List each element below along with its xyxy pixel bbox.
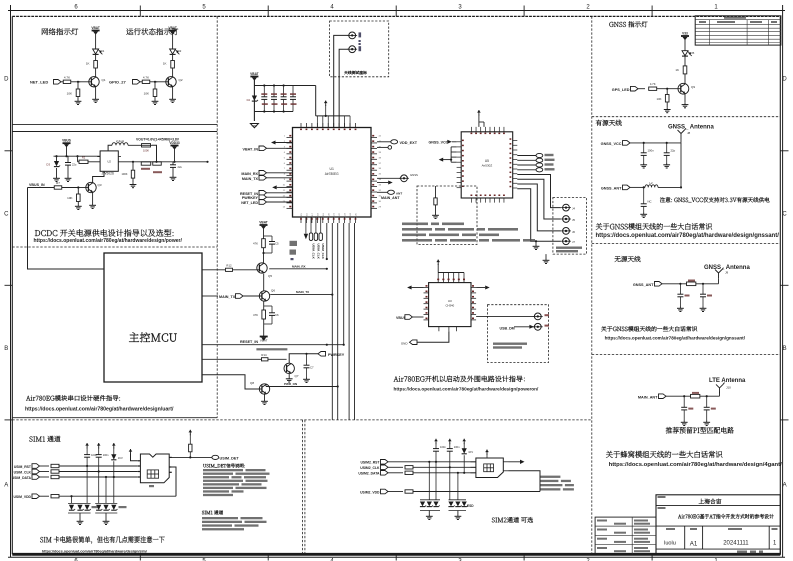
svg-text:RESET_IN: RESET_IN bbox=[240, 192, 258, 196]
svg-text:10K: 10K bbox=[144, 92, 149, 96]
port arrow (module right) bbox=[377, 181, 393, 185]
module U1 Air780EG bbox=[293, 128, 372, 218]
svg-text:Q5: Q5 bbox=[268, 274, 272, 278]
label antenna test seat bbox=[344, 71, 367, 75]
svg-text:VBAT: VBAT bbox=[259, 220, 267, 224]
capacitor C20 bbox=[681, 396, 693, 420]
series resistor R24 bbox=[40, 464, 138, 467]
svg-text:2: 2 bbox=[586, 5, 590, 11]
wire R11 to collector bbox=[262, 248, 264, 263]
svg-text:MAIN_RX: MAIN_RX bbox=[292, 264, 306, 268]
svg-text:NET_LED: NET_LED bbox=[241, 201, 258, 205]
capacitor C18 bbox=[677, 284, 689, 307]
note GNSS_VCC 3.3V only bbox=[660, 197, 769, 202]
wire bundle 5 bbox=[348, 223, 350, 420]
svg-text:Air530Z: Air530Z bbox=[482, 164, 493, 168]
SIM2 card connector J12 bbox=[471, 458, 509, 478]
svg-text:8: 8 bbox=[284, 174, 286, 176]
svg-text:B: B bbox=[4, 346, 8, 352]
svg-text:LTE Antenna: LTE Antenna bbox=[709, 378, 746, 384]
svg-text:J9: J9 bbox=[725, 271, 729, 275]
GNSS chip U5 bbox=[457, 127, 518, 203]
wire Q6 output net bbox=[270, 290, 333, 296]
series resistor R7 bbox=[28, 181, 89, 189]
svg-text:NET_LED: NET_LED bbox=[30, 80, 48, 85]
input port reset bbox=[240, 191, 293, 196]
wire USIM_DET out bbox=[169, 456, 212, 458]
svg-text:17: 17 bbox=[312, 213, 314, 216]
power flag VDD (GNSS LED) bbox=[681, 31, 689, 50]
power flag VBAT (LED driver) bbox=[91, 26, 99, 49]
transistor Q3 enable bbox=[86, 182, 102, 192]
RF pad GNSS antenna bbox=[377, 173, 418, 182]
wire U5 to RF pad 2 bbox=[517, 179, 561, 219]
svg-text:MAIN_TX: MAIN_TX bbox=[242, 177, 259, 181]
capacitor C5 bbox=[264, 236, 280, 253]
svg-text:USIM_CLK: USIM_CLK bbox=[14, 470, 32, 474]
svg-text:USIM_DET: USIM_DET bbox=[220, 457, 240, 461]
wire RESET net bbox=[202, 340, 344, 350]
power arrow (module top) bbox=[324, 101, 328, 118]
node RESET wire end bbox=[343, 344, 345, 346]
wire MCU to UART row 2 bbox=[202, 295, 218, 297]
TVS diode D13 (SIM2 left) bbox=[433, 502, 439, 507]
input port USIM_VDD bbox=[13, 494, 39, 499]
TVS diode D9 (SIM1 group B) bbox=[96, 505, 102, 510]
url uart design bbox=[25, 406, 174, 412]
wire MCU to Q8 base bbox=[202, 375, 262, 389]
input port USIM_CLK bbox=[14, 469, 40, 474]
svg-text:MAIN_ANT: MAIN_ANT bbox=[381, 196, 400, 200]
ground arrow (module bottom pin 1) bbox=[304, 217, 308, 239]
svg-text:GNSS: GNSS bbox=[410, 173, 418, 177]
svg-text:14: 14 bbox=[283, 206, 286, 208]
svg-text:J7: J7 bbox=[572, 240, 575, 244]
svg-text:U1: U1 bbox=[330, 167, 334, 171]
input port GNSS_ANT passive bbox=[633, 282, 662, 287]
antenna symbol (passive) bbox=[715, 268, 729, 279]
svg-text:38: 38 bbox=[379, 157, 382, 159]
wire decoupling bus top bbox=[254, 84, 315, 86]
svg-text:MAIN_ANT: MAIN_ANT bbox=[638, 395, 658, 399]
port arrow (U3 right) bbox=[476, 286, 490, 290]
net label USB_DM bbox=[500, 325, 534, 331]
input port VBUS U3 bbox=[396, 315, 424, 320]
pull-down resistor 10K bbox=[144, 82, 157, 97]
note USIM_DET explanation body bbox=[203, 469, 270, 496]
svg-text:U3: U3 bbox=[448, 299, 452, 303]
wire GNSS chip bus bbox=[451, 147, 457, 162]
LED D1 bbox=[93, 49, 105, 54]
svg-text:35: 35 bbox=[379, 174, 382, 176]
input port USIM2_RST bbox=[360, 460, 388, 465]
pull-up resistor R28 (USIM_DET) bbox=[189, 430, 193, 458]
svg-text:A: A bbox=[4, 482, 8, 488]
svg-text:VBAT: VBAT bbox=[91, 26, 99, 30]
ground (decoupling bank) bbox=[250, 124, 258, 128]
wire LED to resistor bbox=[172, 55, 174, 61]
svg-text:1K: 1K bbox=[163, 62, 167, 66]
ground (backup) bbox=[432, 205, 439, 219]
resistor R13 bbox=[253, 301, 265, 319]
wire VBAT bus to pin bus bbox=[315, 86, 317, 116]
output port U5 right 2 bbox=[517, 158, 554, 162]
svg-text:R7: R7 bbox=[56, 181, 60, 185]
svg-text:4.7K: 4.7K bbox=[64, 76, 70, 80]
series resistor R2 (EN pin) bbox=[78, 156, 101, 164]
wire collector to EN pin bbox=[93, 171, 104, 182]
svg-text:GNSS_ANT: GNSS_ANT bbox=[633, 283, 654, 287]
dashed box GNSS backup supply bbox=[417, 186, 477, 245]
series resistor 4.7K bbox=[61, 76, 80, 84]
input port LTE_ANT bbox=[638, 394, 666, 399]
SIM1 card connector J11 bbox=[138, 454, 172, 487]
wire to matching (passive) bbox=[662, 283, 687, 285]
wire resistor to collector bbox=[172, 68, 174, 77]
node base junction GNSS bbox=[666, 88, 668, 90]
svg-text:https://docs.openluat.com/air7: https://docs.openluat.com/air780eg/at/ha… bbox=[42, 549, 147, 553]
pull-down resistor 10K bbox=[67, 82, 80, 97]
module bottom pins bbox=[300, 213, 357, 223]
svg-text:Air780EG: Air780EG bbox=[325, 172, 339, 176]
power flag VBUS input bbox=[62, 139, 71, 157]
main MCU block U4 bbox=[104, 253, 202, 382]
wire SIM2 row1 bbox=[388, 461, 476, 463]
output port U5 right 4 bbox=[517, 168, 554, 172]
svg-text:100n: 100n bbox=[454, 445, 460, 449]
svg-text:MAIN_TX: MAIN_TX bbox=[219, 295, 236, 299]
capacitor C26 (SIM2) bbox=[447, 445, 460, 467]
ground (R4) bbox=[130, 178, 137, 188]
svg-text:C7: C7 bbox=[310, 366, 314, 370]
wire U3 to USB pad DP bbox=[476, 315, 534, 317]
dcdc converter U2 JW5026 bbox=[97, 151, 121, 176]
svg-text:USIM2_CLK: USIM2_CLK bbox=[360, 466, 380, 470]
wire R20 to Q9 bbox=[684, 74, 686, 84]
svg-text:100n: 100n bbox=[440, 445, 446, 449]
capacitor C8 (module decoupling) bbox=[261, 86, 268, 112]
resistor R4 100K bbox=[121, 162, 134, 178]
capacitor C11 (module decoupling) bbox=[290, 86, 297, 112]
svg-text:23: 23 bbox=[345, 213, 347, 216]
module left pins bbox=[283, 135, 293, 208]
svg-text:9: 9 bbox=[284, 179, 286, 181]
label TVS (SIM2) bbox=[467, 504, 474, 508]
svg-text:J5: J5 bbox=[572, 218, 575, 222]
port arrow (module left 1) bbox=[271, 141, 293, 145]
ground (C21) bbox=[703, 421, 710, 426]
svg-text:USIM2_RST: USIM2_RST bbox=[360, 461, 380, 465]
svg-text:https://docs.openluat.com/air7: https://docs.openluat.com/air780eg/at/ha… bbox=[605, 335, 746, 340]
approval table bbox=[595, 517, 656, 554]
svg-text:47K: 47K bbox=[253, 313, 258, 317]
svg-text:37: 37 bbox=[379, 163, 382, 165]
svg-text:V33: V33 bbox=[682, 31, 688, 35]
TVS diode D7 (SIM1 group A) bbox=[77, 505, 83, 510]
svg-text:47K: 47K bbox=[253, 242, 258, 246]
ground (pull-down) bbox=[75, 97, 82, 105]
transistor Q7 bbox=[284, 363, 299, 378]
title block frame bbox=[656, 495, 780, 555]
design title text bbox=[658, 507, 774, 519]
series resistor 4.7K bbox=[140, 76, 157, 84]
svg-text:10: 10 bbox=[283, 185, 286, 187]
input port powerkey bbox=[242, 195, 293, 200]
wire SIM1 VDD loop bbox=[172, 467, 176, 496]
revision table bbox=[695, 16, 781, 45]
capacitor C6 bbox=[264, 306, 279, 324]
title GNSS indicator bbox=[609, 21, 647, 27]
TVS array bus (SIM2) bbox=[420, 500, 466, 511]
output port U5 right 1 bbox=[517, 153, 553, 157]
svg-text:C: C bbox=[4, 211, 9, 217]
input port GPIO_27 bbox=[109, 80, 140, 85]
wire bundle 3 bbox=[337, 223, 339, 420]
svg-text:6: 6 bbox=[74, 5, 78, 11]
title DCDC design guide bbox=[35, 229, 174, 236]
input port VBAT main bbox=[242, 146, 292, 151]
port U3 bottom bbox=[401, 331, 449, 345]
capacitor C25 (SIM2) bbox=[433, 445, 446, 462]
svg-text:Q3: Q3 bbox=[98, 183, 102, 187]
svg-text:2.2uH: 2.2uH bbox=[116, 139, 124, 143]
svg-text:100K: 100K bbox=[143, 149, 149, 153]
wire LED to resistor bbox=[95, 55, 97, 61]
wire U5 to RF pad 3 bbox=[517, 184, 561, 231]
wire Q8 emitter to ground bbox=[261, 394, 268, 404]
svg-text:USIM2_DATA: USIM2_DATA bbox=[358, 472, 380, 476]
port arrow (GNSS chip bus) bbox=[439, 158, 453, 162]
ground (RF pad 4 branch) bbox=[533, 240, 540, 249]
ground (R22) bbox=[664, 102, 671, 113]
svg-text:D: D bbox=[4, 77, 9, 83]
test point TP1 bbox=[377, 146, 392, 150]
port arrow (U3 left) bbox=[407, 286, 423, 290]
ground (SIM2 TVS right) bbox=[455, 511, 462, 520]
label SIM2 channel optional bbox=[492, 517, 533, 523]
formula note VOUT bbox=[136, 137, 180, 141]
power arrow (GNSS chip) bbox=[477, 110, 484, 127]
svg-text:R12: R12 bbox=[226, 263, 232, 267]
node junction (SIM1 col 0) bbox=[86, 465, 88, 467]
svg-text:29: 29 bbox=[379, 206, 382, 208]
TVS array bus (SIM1 group A) bbox=[68, 503, 91, 513]
pull-down resistor R8 bbox=[67, 188, 80, 202]
svg-text:A1: A1 bbox=[690, 541, 698, 548]
RF connector J5 bbox=[561, 216, 575, 223]
series resistor R31 bbox=[388, 471, 476, 474]
wire U3 top bus bbox=[438, 272, 464, 274]
ground (C16) bbox=[663, 163, 670, 168]
RF test connector J2 bbox=[347, 32, 361, 42]
wire bundle 4 bbox=[343, 223, 345, 345]
svg-text:34: 34 bbox=[379, 179, 382, 181]
wire Q9 emitter ground bbox=[682, 94, 689, 108]
svg-text:GNSS_ Antenna: GNSS_ Antenna bbox=[668, 124, 714, 130]
title poweron design guide bbox=[394, 376, 525, 383]
svg-text:D4: D4 bbox=[247, 98, 251, 102]
RF connector J7 bbox=[561, 238, 575, 245]
svg-text:GND: GND bbox=[401, 342, 409, 346]
wire emitter to ground bbox=[172, 87, 174, 98]
svg-text:100n: 100n bbox=[103, 453, 109, 457]
svg-text:U2: U2 bbox=[107, 160, 111, 164]
wire output bus bbox=[118, 161, 208, 163]
svg-text:D5: D5 bbox=[691, 51, 695, 55]
svg-text:1: 1 bbox=[773, 541, 777, 547]
output port USIM_DET bbox=[212, 455, 239, 460]
svg-text:R2: R2 bbox=[82, 156, 86, 160]
wire SIM1 verticals to TVS bbox=[70, 466, 113, 503]
wire SIM2 verticals to TVS bbox=[428, 461, 459, 500]
input port USIM_DATA bbox=[12, 475, 40, 480]
antenna symbol (active) bbox=[678, 128, 691, 139]
TVS diode D16 (SIM2 right) bbox=[462, 502, 468, 507]
resistor R11 bbox=[253, 236, 265, 248]
wire emitter to ground bbox=[95, 87, 97, 98]
input port NET_LED bbox=[30, 80, 61, 85]
svg-text:VBAT: VBAT bbox=[168, 26, 176, 30]
svg-text:22p: 22p bbox=[671, 149, 676, 153]
resistor R19 (backup) bbox=[434, 186, 437, 205]
wire Q8 output net bbox=[266, 382, 339, 388]
url gnssant (active) bbox=[596, 233, 780, 239]
capacitor C2 22uF bbox=[170, 162, 182, 176]
power flag VBAT (LED driver) bbox=[168, 26, 176, 49]
svg-text:https://docs.openluat.com/air7: https://docs.openluat.com/air780eg/at/ha… bbox=[394, 387, 540, 392]
svg-text:VBUS_IN: VBUS_IN bbox=[29, 183, 45, 187]
power arrow (SIM1 C22) bbox=[85, 443, 89, 455]
svg-text:R14: R14 bbox=[261, 353, 267, 357]
ground (C15) bbox=[640, 163, 647, 168]
svg-text:Q1: Q1 bbox=[102, 78, 106, 82]
title cellular antenna knowledge bbox=[606, 451, 722, 458]
node junction (SIM1 col 2) bbox=[113, 476, 115, 478]
input port GNSS_ANT bbox=[601, 185, 630, 190]
note PI matching bbox=[666, 427, 734, 434]
wire LED to R20 bbox=[684, 56, 686, 66]
transistor Q6 bbox=[259, 289, 275, 302]
wire antenna feed down bbox=[680, 143, 682, 189]
title block cells bbox=[664, 528, 777, 548]
title GNSS antenna knowledge (passive) bbox=[601, 326, 697, 331]
svg-text:Q6: Q6 bbox=[271, 289, 275, 293]
node base junction bbox=[77, 81, 92, 83]
net label rotated 17 bbox=[321, 244, 325, 260]
net label (module right) bbox=[381, 196, 400, 200]
power arrow (SIM2 C26) bbox=[448, 439, 452, 449]
svg-text:11: 11 bbox=[283, 190, 286, 192]
power arrow (SIM1 connector) bbox=[129, 449, 138, 461]
capacitor C9 (module decoupling) bbox=[271, 86, 278, 112]
ground (emitter) bbox=[169, 98, 176, 103]
svg-text:20241111: 20241111 bbox=[723, 541, 749, 547]
node base junction bbox=[154, 81, 169, 83]
title GNSS antenna knowledge (active) bbox=[596, 223, 712, 230]
LED D2 bbox=[170, 49, 182, 54]
wire resistor to collector bbox=[95, 68, 97, 77]
wire Q5 emitter down bbox=[263, 274, 265, 291]
svg-text:100K: 100K bbox=[121, 172, 127, 176]
url 4gant bbox=[609, 462, 783, 468]
TVS diode D15 (SIM2 right) bbox=[455, 502, 461, 507]
inductor L4 (LTE match) bbox=[691, 392, 700, 398]
svg-text:42: 42 bbox=[379, 136, 382, 138]
feedback resistor R6 bbox=[153, 162, 162, 173]
svg-text:VDD33: VDD33 bbox=[169, 141, 180, 145]
wire LTE feed bbox=[666, 392, 720, 398]
ground (D3) bbox=[53, 168, 60, 182]
capacitor C1 22uF bbox=[65, 156, 77, 176]
wire PWRKEY to Q7 bbox=[289, 353, 318, 364]
svg-text:100n: 100n bbox=[648, 149, 655, 153]
svg-text:D3: D3 bbox=[46, 163, 50, 167]
svg-text:10K: 10K bbox=[657, 97, 662, 101]
svg-text:VBAT: VBAT bbox=[260, 339, 268, 343]
capacitor C15 bbox=[641, 143, 654, 163]
capacitor C17 bbox=[641, 187, 652, 212]
svg-text:RESET_IN: RESET_IN bbox=[240, 340, 258, 344]
svg-text:J10: J10 bbox=[726, 386, 731, 390]
svg-text:4.7K: 4.7K bbox=[650, 82, 656, 86]
svg-text:GNSS_VCC: GNSS_VCC bbox=[429, 141, 449, 145]
dashed box antenna test bbox=[330, 21, 389, 77]
svg-text:D1: D1 bbox=[101, 49, 105, 53]
svg-text:https://docs.openluat.com/air7: https://docs.openluat.com/air780eg/at/ha… bbox=[609, 462, 783, 468]
svg-text:ESD: ESD bbox=[467, 504, 474, 508]
svg-text:J8: J8 bbox=[687, 131, 691, 135]
inductor L2 matching bbox=[645, 181, 681, 188]
svg-text:USIM_CLK: USIM_CLK bbox=[321, 244, 325, 260]
power flag VDD_3V3 bbox=[169, 141, 180, 162]
net label rotated 16 bbox=[316, 244, 320, 260]
TVS diode D4 bbox=[247, 96, 258, 103]
wire bundle module to lower circuits 1 bbox=[326, 223, 328, 260]
svg-text:36: 36 bbox=[379, 168, 382, 170]
net label rotated 15 bbox=[311, 244, 315, 260]
svg-text:3: 3 bbox=[458, 5, 462, 11]
wire U5 to RF pad 4 bbox=[517, 189, 561, 241]
pull resistor R16 (SIM lines) bbox=[314, 217, 317, 241]
resistor R2 1K bbox=[163, 61, 175, 69]
RF test connector J3 bbox=[347, 43, 361, 53]
svg-text:USIM_DATA: USIM_DATA bbox=[12, 476, 32, 480]
TVS diode D17 (SIM2 VDD) bbox=[462, 448, 474, 473]
capacitor C7 bbox=[304, 354, 315, 378]
wire J3 to module bbox=[339, 49, 348, 127]
label LTE Antenna bbox=[709, 378, 746, 384]
svg-text:Q7: Q7 bbox=[295, 374, 299, 378]
series resistor R27 bbox=[40, 495, 177, 498]
output port U5 right 3 bbox=[517, 163, 553, 167]
input port GNSS_VCC bbox=[601, 141, 630, 146]
svg-text:PWRKEY: PWRKEY bbox=[328, 353, 345, 357]
dashed box USB test points bbox=[488, 305, 549, 363]
svg-text:VBAT: VBAT bbox=[250, 72, 258, 76]
port arrow (module left 2) bbox=[272, 185, 292, 189]
svg-text:USIM_RST: USIM_RST bbox=[14, 465, 32, 469]
url poweron design bbox=[394, 387, 540, 392]
svg-text:L2: L2 bbox=[649, 181, 653, 185]
svg-text:VBAT_IN: VBAT_IN bbox=[242, 147, 258, 151]
capacitor C23 (SIM1) bbox=[96, 453, 109, 472]
series resistor R32 bbox=[388, 490, 540, 493]
note SIM2 body bbox=[540, 476, 574, 491]
url gnssant (passive) bbox=[605, 335, 746, 340]
title uart design guide bbox=[26, 395, 120, 401]
input port USIM2_VDD bbox=[360, 489, 388, 494]
svg-text:C5: C5 bbox=[275, 242, 279, 246]
